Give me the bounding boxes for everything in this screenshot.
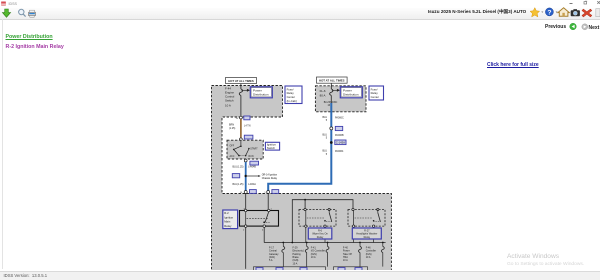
- wire BLU heavy: fusible link down, across to relay box entry: [330, 95, 332, 103]
- ignition switch internals: [230, 140, 259, 158]
- svg-text:PA0064: PA0064: [335, 150, 344, 153]
- fuse F-40 value label: [343, 246, 352, 262]
- Ignition Switch hyperlink box: [265, 142, 279, 150]
- svg-text:OFF: OFF: [230, 145, 235, 147]
- relay R-27 internals: [352, 208, 381, 227]
- Power Distribution hyperlink box (right): [340, 87, 362, 98]
- junction node bus/feed: [291, 242, 293, 244]
- svg-text:10 A: 10 A: [311, 256, 316, 259]
- nav icon: previous (green): [570, 23, 577, 30]
- svg-text:(1.25): (1.25): [229, 127, 235, 130]
- svg-text:80 A: 80 A: [320, 93, 326, 97]
- svg-text:ACC: ACC: [230, 155, 235, 158]
- bus wire (fed from relay R-2): [264, 242, 385, 244]
- svg-text:Relay: Relay: [364, 236, 371, 239]
- fuse F-44 value label: [225, 86, 235, 107]
- svg-text:(In-Cab): (In-Cab): [287, 99, 297, 103]
- svg-text:16: 16: [236, 118, 239, 120]
- wire BRN (1.25): [240, 119, 242, 138]
- connector label box C-143A: [335, 140, 346, 145]
- fuse F-41 drop: [326, 242, 329, 267]
- connector pin circle below ignition switch: [244, 159, 247, 162]
- toolbar icon: printer: [29, 10, 36, 17]
- svg-text:START: START: [250, 148, 258, 151]
- toolbar icon: green download arrow: [2, 9, 10, 17]
- arrow to OR-14 Ignition Chassis Relay: [247, 174, 278, 181]
- wire from entry 1 to relay R-2: [267, 194, 269, 211]
- fuse F-46 drop: [381, 242, 384, 267]
- app title text: [428, 9, 526, 15]
- wire from relay R-2 pin 2 down (cut off at window bottom): [245, 227, 247, 268]
- svg-text:PA006B: PA006B: [335, 134, 344, 137]
- svg-text:L4 TN: L4 TN: [244, 124, 251, 127]
- svg-text:HOT AT ALL TIMES: HOT AT ALL TIMES: [228, 79, 254, 83]
- wire label BRN (1.25): [229, 124, 251, 130]
- toolbar icon: camera: [571, 9, 580, 16]
- fuse F-29 value label: [293, 246, 304, 265]
- feed wire up to relay contacts (R-6 / R-27): [292, 200, 353, 243]
- fuse F-46 value label: [366, 246, 377, 259]
- wire from fuse F-44 down: [240, 95, 242, 116]
- svg-text:BLU(1.25): BLU(1.25): [233, 183, 244, 186]
- svg-text:Distribution: Distribution: [343, 93, 359, 97]
- Previous / Next nav: [545, 24, 566, 30]
- svg-text:5: 5: [326, 137, 328, 140]
- status bar: [0, 271, 600, 280]
- relay R-27 box (dashed): [348, 210, 385, 227]
- fuse F-40 drop: [359, 242, 362, 267]
- Click here for full size link: [487, 62, 539, 68]
- entry connector label box (right): [272, 190, 279, 194]
- svg-text:Center: Center: [371, 95, 379, 99]
- svg-text:L4/64B: L4/64B: [248, 166, 256, 169]
- fuse F-44 symbol: [239, 89, 242, 95]
- connector pin circle below fuse box: [240, 116, 243, 119]
- wire into fusible link: [330, 83, 332, 89]
- inline connector on BLU wire: [330, 127, 333, 130]
- wire label BLU 5 PA0064: [323, 150, 344, 156]
- svg-text:BLU(1.25): BLU(1.25): [233, 166, 244, 169]
- Power Distribution hyperlink box (left): [250, 87, 272, 98]
- toolbar icon: favorite star: [530, 8, 540, 17]
- svg-text:5: 5: [326, 153, 328, 156]
- link Power Distribution: [6, 34, 53, 40]
- arrow to Power Distribution (left): [242, 89, 250, 91]
- svg-text:HOT AT ALL TIMES: HOT AT ALL TIMES: [319, 78, 345, 82]
- toolbar partial button: [596, 9, 600, 17]
- svg-text:10 A: 10 A: [343, 259, 348, 262]
- connector label box below ignition switch: [250, 161, 259, 165]
- bottom connector label boxes (cut off): [256, 268, 362, 272]
- connector pin circle at ignition switch top: [240, 138, 243, 141]
- fusible link FL-6 value label: [320, 89, 326, 97]
- svg-text:PA006C: PA006C: [335, 117, 344, 120]
- fuse box F-44 (in-cab fuse/relay center, left gray box): [212, 86, 392, 272]
- relay R-2 box: [240, 211, 279, 227]
- toolbar background: [0, 8, 600, 20]
- IDSS caption: [9, 2, 17, 6]
- svg-text:10 A: 10 A: [366, 256, 371, 259]
- svg-text:RUN: RUN: [249, 156, 254, 158]
- toolbar icon: magnifier: [19, 9, 26, 16]
- left panel separator line: [2, 19, 3, 269]
- arrow to Power Distribution (right): [332, 89, 339, 91]
- fuse F-17 drop: [282, 242, 285, 267]
- star dropdown arrow: [541, 12, 543, 13]
- entry pin circle 16 (left): [240, 191, 247, 194]
- nav icon: next (gray): [582, 24, 588, 30]
- fuse box FL-6 (right gray box): [315, 86, 366, 112]
- entry pin circle 1 (right): [264, 191, 269, 194]
- wires from relay R-6 to bus: [306, 227, 325, 242]
- fuse F-17 value label: [269, 246, 279, 262]
- wire label BLU 5 PA006C: [323, 116, 344, 122]
- svg-text:10 A: 10 A: [225, 103, 231, 107]
- wire label BLU(1.25) L4/64B: [233, 166, 257, 169]
- IDSS logo: [1, 2, 6, 6]
- svg-text:?: ?: [547, 9, 551, 16]
- junction node C-143A: [330, 141, 333, 144]
- svg-text:Switch: Switch: [267, 146, 276, 150]
- R-6 Wiper Key On Relay hyperlink box: [308, 228, 332, 239]
- junction node on feed wire: [304, 199, 306, 201]
- relay R-2 internals: coil and contact: [243, 208, 273, 231]
- svg-text:5 A: 5 A: [269, 259, 273, 262]
- relay R-6 box (dashed): [299, 210, 336, 227]
- Activate Windows watermark: [507, 253, 559, 260]
- svg-text:Relay: Relay: [224, 224, 232, 228]
- svg-text:Chassis Relay: Chassis Relay: [262, 177, 278, 180]
- svg-text:C-143A: C-143A: [336, 141, 345, 145]
- svg-text:5: 5: [326, 119, 328, 122]
- wire label BLU 5 PA006B: [323, 133, 344, 139]
- svg-text:FL-6: FL-6: [320, 89, 326, 93]
- svg-text:Switch: Switch: [225, 98, 234, 102]
- wire label BLU(1.25) L4/64A: [233, 183, 257, 186]
- wire BLU(1.25) from ignition switch: [245, 162, 247, 192]
- hot-at-all-times label (left): [226, 77, 257, 83]
- ignition switch box: [227, 140, 263, 159]
- window controls: [560, 0, 600, 8]
- svg-text:Relay: Relay: [317, 236, 324, 239]
- wire into fuse F-44: [240, 84, 242, 89]
- Fuse/Relay Center label box (right): [369, 86, 384, 100]
- wire from relay R-2 pin 4 to bus: [263, 227, 265, 242]
- fusible link FL-6 symbol: [330, 89, 333, 95]
- connector label box on BLU wire: [335, 126, 342, 130]
- toolbar icon: red close X: [582, 9, 592, 17]
- wire from entry 16 to relay R-2: [245, 194, 247, 211]
- svg-text:10 A: 10 A: [293, 262, 298, 265]
- help dropdown arrow: [556, 12, 558, 13]
- Fuse/Relay Center (In-Cab) label box: [285, 86, 302, 104]
- relay R-6 internals: [304, 208, 333, 227]
- entry connector label box (left): [250, 190, 257, 194]
- R-27 Headlights Washer Relay hyperlink box: [352, 228, 381, 239]
- svg-text:L4/64A: L4/64A: [248, 183, 256, 186]
- wires from relay R-27 to bus: [354, 227, 374, 242]
- connector label box (left of junction): [232, 174, 239, 178]
- fuse F-29 drop: [305, 242, 308, 267]
- component row boxes cut off at bottom: [254, 267, 368, 273]
- link R-2 Ignition Main Relay: [6, 44, 64, 50]
- junction node on BLU wire: [245, 175, 247, 177]
- R-2 Ignition Main Relay hyperlink box: [223, 210, 238, 229]
- toolbar icon: home: [558, 8, 569, 16]
- connector label box (mini): [244, 116, 250, 120]
- hot-at-all-times label (right): [317, 77, 348, 83]
- toolbar icon: help: [545, 8, 553, 17]
- connector label box above ignition switch: [244, 135, 253, 139]
- svg-text:Distribution: Distribution: [253, 93, 269, 97]
- fuse F-41 value label: [311, 246, 325, 259]
